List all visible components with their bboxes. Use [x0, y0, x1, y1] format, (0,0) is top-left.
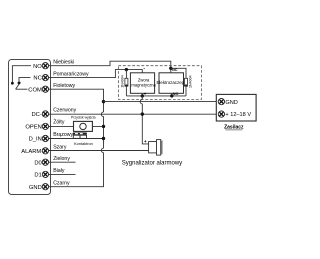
node: Zwora + junction [141, 94, 144, 97]
diode D1 1N4004 (left) body [125, 70, 127, 96]
wire NO Niebieski [49, 61, 171, 73]
svg-text:OPEN: OPEN [25, 125, 41, 131]
stub to Elektrozaczep NO [171, 93, 173, 96]
reader device outline [9, 60, 51, 195]
wire D_IN Brazowy [49, 138, 104, 140]
svg-text:NC: NC [33, 76, 41, 82]
wire NO feed to diode D2 [171, 68, 186, 96]
svg-text:+ 12–18 V: + 12–18 V [225, 112, 251, 118]
terminal DC- [31, 111, 48, 118]
svg-text:GND: GND [29, 185, 42, 191]
relay contact: NO branch wire [12, 66, 31, 84]
node: Elektrozaczep NO junction [170, 94, 173, 97]
terminal NC [33, 74, 48, 81]
wire DC- Czerwony to +12-18V [49, 113, 219, 115]
svg-text:Brązowy: Brązowy [53, 132, 73, 138]
svg-text:Czarny: Czarny [53, 181, 70, 187]
wire bottom bus down to +12V with hop over GND wire [142, 96, 148, 144]
svg-text:NO: NO [33, 64, 42, 70]
svg-text:NC: NC [172, 68, 178, 72]
wire COM Fioletowy vertical bus with hops over DC- and ALARM wires [49, 89, 104, 187]
svg-text:1N4004: 1N4004 [189, 75, 193, 88]
terminal NO [33, 63, 48, 70]
svg-text:Czerwony: Czerwony [53, 108, 76, 114]
electric strike box Elektrozaczep [159, 73, 184, 94]
terminal OPEN [25, 123, 48, 130]
alarm sounder symbol [149, 142, 157, 153]
svg-text:GND: GND [225, 100, 237, 106]
wire GND Czarny [49, 186, 104, 188]
relay contact: NO contact dot [11, 82, 14, 85]
terminal D0 [34, 159, 48, 166]
svg-text:1N4004: 1N4004 [120, 75, 124, 88]
terminal ALARM- [21, 148, 48, 155]
svg-text:Żółty: Żółty [53, 119, 65, 126]
svg-text:Zielony: Zielony [53, 156, 70, 162]
svg-text:Fioletowy: Fioletowy [53, 83, 75, 89]
stub to Zwora + [141, 93, 143, 96]
svg-text:Niebieski: Niebieski [53, 60, 74, 66]
svg-text:D0: D0 [34, 160, 41, 166]
power supply box Zasilacz [216, 94, 256, 121]
relay contact: NC branch wire [19, 78, 31, 83]
wire OPEN Zolty [49, 125, 104, 127]
svg-text:Kontaktron: Kontaktron [74, 141, 93, 146]
reed switch Kontaktron symbol [73, 133, 87, 135]
terminal COM [28, 86, 48, 93]
svg-text:DC-: DC- [31, 112, 41, 118]
svg-text:Przycisk wyjścia: Przycisk wyjścia [71, 115, 96, 119]
wire D1 Bialy stub [49, 173, 76, 175]
svg-text:Sygnalizator alarmowy: Sygnalizator alarmowy [122, 160, 182, 166]
svg-text:+: + [144, 92, 147, 97]
terminal D_IN [29, 135, 49, 142]
svg-text:magnetyczna: magnetyczna [131, 83, 156, 88]
svg-text:Pomarańczowy: Pomarańczowy [53, 71, 89, 77]
wire ALARM Szary to sounder [49, 150, 149, 152]
svg-text:COM: COM [28, 87, 42, 93]
svg-text:D_IN: D_IN [29, 137, 42, 143]
terminal D1 [34, 171, 48, 178]
bottom bus wire inside dashed box [126, 95, 186, 97]
power supply +12-18V terminal [218, 111, 224, 117]
svg-text:Szary: Szary [53, 144, 67, 150]
svg-text:+: + [144, 140, 147, 145]
node: reed switch to bus [102, 137, 105, 140]
svg-text:D1: D1 [34, 173, 41, 179]
node: bus to power supply GND [102, 100, 105, 103]
svg-text:ALARM-: ALARM- [21, 149, 43, 155]
svg-text:Elektrozaczep: Elektrozaczep [157, 80, 185, 85]
node: NC feed junction [125, 68, 128, 71]
node: +12V tap [141, 112, 144, 115]
svg-text:Biały: Biały [53, 168, 65, 174]
relay contact: COM branch wire [16, 88, 28, 90]
relay contact: NC contact dot [18, 82, 21, 85]
node: NO feed junction [169, 67, 172, 70]
relay contact: blade [16, 82, 21, 89]
terminal GND [29, 184, 49, 191]
dashed enclosure (door devices) [118, 66, 201, 100]
wire NC Pomaranczowy [49, 70, 143, 78]
power supply GND terminal [218, 98, 224, 104]
node: exit button to bus [102, 125, 105, 128]
exit button box [74, 121, 93, 131]
magnetic lock box Zwora magnetyczna [130, 73, 154, 94]
wire bus to Zasilacz GND [104, 101, 219, 103]
diode D2 1N4004 (right) body [185, 78, 188, 86]
wire D0 Zielony stub [49, 161, 76, 163]
